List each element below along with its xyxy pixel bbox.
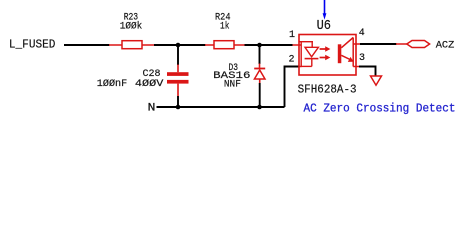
svg-text:L_FUSED: L_FUSED: [9, 39, 56, 52]
pin 1: [293, 44, 302, 46]
LED pair inside U6: [299, 42, 318, 67]
resistor R24: [205, 12, 245, 48]
ground/power triangle: [371, 76, 382, 85]
svg-text:2: 2: [288, 54, 294, 65]
diode D3: [213, 45, 265, 107]
svg-text:SFH628A-3: SFH628A-3: [298, 82, 357, 96]
svg-text:4ØØV: 4ØØV: [135, 78, 164, 90]
resistor R23: [109, 12, 155, 48]
svg-text:4: 4: [359, 28, 365, 39]
node junction C28 bottom: [176, 105, 181, 110]
node junction C28 top: [176, 43, 181, 48]
transistor Q inside U6: [338, 38, 354, 67]
pin 4: [353, 43, 360, 45]
light arrows: [320, 46, 331, 60]
svg-text:AC Zero Crossing Detect: AC Zero Crossing Detect: [304, 103, 456, 116]
wire pin4 to ACZ: [360, 43, 397, 45]
node junction D3 bottom: [257, 105, 262, 110]
pin 2: [299, 66, 302, 68]
wire R23 to junction/R24: [154, 44, 206, 46]
svg-text:3: 3: [359, 53, 365, 64]
svg-text:ACZ: ACZ: [436, 40, 455, 52]
node junction D3 top: [257, 43, 262, 48]
svg-text:1k: 1k: [220, 21, 230, 33]
svg-text:1: 1: [289, 30, 295, 41]
svg-text:U6: U6: [317, 19, 331, 34]
wire blue stub above U6: [324, 0, 326, 14]
wire pin3 to power symbol: [359, 67, 376, 76]
wire R24 to opto pin1: [245, 44, 293, 46]
svg-text:1ØØnF: 1ØØnF: [97, 78, 127, 90]
wire N rail: [157, 106, 285, 108]
wire L_FUSED to R23: [64, 44, 110, 46]
svg-text:1ØØk: 1ØØk: [120, 21, 143, 33]
pin 3: [353, 66, 359, 68]
capacitor C28: [97, 45, 189, 107]
wire N rail up to opto pin2: [285, 67, 300, 108]
optocoupler U6 box: [299, 35, 356, 76]
svg-text:NNF: NNF: [224, 80, 241, 91]
port ACZ: [396, 40, 454, 52]
svg-text:N: N: [148, 103, 156, 115]
